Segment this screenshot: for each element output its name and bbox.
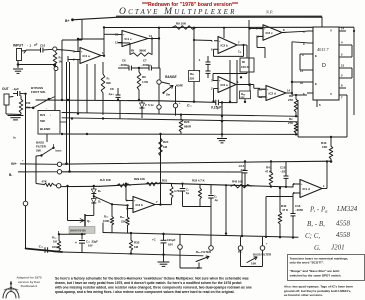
- svg-text:R24: R24: [163, 140, 169, 144]
- wire pot1 bottom: [179, 249, 181, 268]
- svg-text:R21: R21: [40, 113, 46, 117]
- svg-text:IC1 d: IC1 d: [303, 187, 311, 191]
- transistor Q1 source: [84, 226, 86, 235]
- op-amp IC2c: [263, 25, 282, 41]
- pin 13 right: [339, 67, 346, 69]
- svg-text:100μF: 100μF: [52, 245, 60, 249]
- svg-text:→: →: [45, 107, 48, 110]
- pin loop right a: [346, 44, 352, 46]
- transistor Q1 JFET: [84, 214, 86, 227]
- pin 7 VSS right: [339, 94, 346, 96]
- wire IC1c out: [151, 38, 159, 40]
- svg-text:-.0056: -.0056: [295, 208, 303, 212]
- svg-text:9V+: 9V+: [11, 162, 17, 166]
- node jack mid: [157, 105, 161, 109]
- svg-text:R₁ℎ 10K: R₁ℎ 10K: [100, 178, 111, 182]
- svg-text:SW.: SW.: [36, 149, 41, 153]
- wire right loop: [297, 100, 299, 137]
- svg-text:16V: 16V: [168, 243, 173, 247]
- wire node column: [54, 71, 56, 111]
- svg-text:drawn, but I have an early ped: drawn, but I have an early pedal from 19…: [55, 281, 242, 285]
- wire IC2a out: [237, 84, 254, 86]
- potentiometer R46 BASS FILTER term1: [240, 237, 242, 246]
- wire top rail: [104, 26, 313, 28]
- svg-text:R32 4.7 K: R32 4.7 K: [192, 179, 205, 183]
- pin 2 right: [339, 56, 346, 58]
- wire R1 to left: [18, 64, 55, 66]
- svg-text:E: E: [315, 82, 317, 86]
- svg-text:-: -: [267, 96, 268, 99]
- svg-text:C10: C10: [40, 44, 46, 48]
- svg-text:G.: G.: [314, 244, 321, 252]
- wire C20 to rail: [162, 233, 164, 235]
- resistor R1 1M: [53, 52, 57, 68]
- svg-text:-: -: [301, 192, 302, 195]
- svg-text:10K: 10K: [251, 262, 257, 266]
- svg-text:- .1: - .1: [27, 44, 32, 48]
- wire x249 vertical: [248, 20, 250, 86]
- svg-text:C7: C7: [143, 59, 147, 63]
- wire source bus: [59, 233, 86, 235]
- svg-text:+C: +C: [152, 238, 156, 242]
- wire IC1d feedback: [325, 188, 327, 190]
- svg-text:only the word "SCOTT".: only the word "SCOTT".: [290, 261, 325, 265]
- svg-text:50K: 50K: [40, 119, 46, 123]
- wire IC2b power stub: [223, 28, 225, 38]
- svg-text:IC3 b: IC3 b: [136, 203, 144, 207]
- wire rail y253: [62, 252, 203, 256]
- svg-text:-.1μF: -.1μF: [12, 87, 19, 91]
- svg-text:1.5K: 1.5K: [142, 80, 149, 84]
- jack J1 input: [17, 49, 22, 61]
- resistor R6 1.5K: [137, 72, 141, 90]
- wire bus y134: [62, 133, 298, 135]
- wire IC2c minus loop: [257, 35, 263, 37]
- wire diode junction: [93, 195, 95, 197]
- svg-text:9v: 9v: [13, 136, 16, 140]
- svg-text:1M: 1M: [163, 145, 168, 149]
- resistor Ra 220 box: [189, 71, 200, 82]
- wire bus x120: [119, 100, 121, 119]
- resistor R5 47K: [101, 74, 105, 93]
- wire C1 to node A: [44, 48, 53, 51]
- svg-text:IC2 c: IC2 c: [266, 31, 274, 35]
- svg-text:Z: Z: [145, 103, 147, 107]
- wire out column: [23, 201, 28, 206]
- wire filter join: [292, 184, 294, 187]
- wire Rt to IC2a: [246, 72, 248, 74]
- resistor R35 1M: [130, 232, 132, 234]
- wire bus x72: [69, 62, 71, 172]
- pin loop right b: [346, 67, 352, 69]
- capacitor C18 .33uF: [81, 234, 83, 239]
- svg-text:Dudziewicz: Dudziewicz: [21, 284, 38, 288]
- wire bus y100: [36, 100, 216, 102]
- transistor Q1 gate arrow: [68, 220, 85, 222]
- svg-text:bass: bass: [56, 149, 62, 153]
- wire bus x68: [66, 62, 68, 164]
- node dot below R1: [54, 67, 58, 71]
- svg-text:.1μ: .1μ: [214, 198, 218, 202]
- svg-text:R40 10K: R40 10K: [232, 180, 243, 184]
- wire rail y172: [62, 171, 242, 173]
- wire IC2b feedback loop: [239, 44, 241, 46]
- wire IC1a in stub: [70, 51, 76, 52]
- wire IC2c out down: [283, 31, 308, 32]
- pin 6 stub bottom: [316, 100, 318, 107]
- potentiometer R21 BLEND: [38, 111, 60, 135]
- wire caps bottom loop: [183, 206, 212, 208]
- op-amp IC2a: [218, 77, 236, 93]
- label box 2N5457: [69, 227, 95, 234]
- svg-text:R₄₅ FILTER: R₄₅ FILTER: [196, 250, 211, 254]
- wire R42 top: [279, 188, 281, 205]
- resistor R23 680K: [179, 119, 183, 132]
- op-amp IC2d: [266, 86, 286, 101]
- svg-text:16V: 16V: [88, 244, 93, 248]
- wire rail y186: [60, 185, 100, 187]
- svg-text:BLEND: BLEND: [40, 127, 51, 131]
- wire IC1a feedback: [78, 38, 104, 40]
- zener D3 5.1V: [141, 100, 143, 103]
- wire bus x95: [94, 64, 96, 100]
- svg-text:4558: 4558: [336, 231, 351, 239]
- svg-text:390K: 390K: [139, 49, 147, 53]
- svg-text:4.7K: 4.7K: [174, 189, 180, 193]
- svg-text:μF: μF: [34, 43, 38, 47]
- pin 10 Ebar left: [307, 81, 313, 83]
- wire bus y113: [62, 113, 298, 117]
- svg-text:220: 220: [190, 77, 195, 81]
- svg-text:FOOT SW.: FOOT SW.: [31, 90, 46, 94]
- svg-text:10K: 10K: [322, 145, 328, 149]
- svg-text:-: -: [81, 59, 82, 62]
- svg-text:Cᵨ: Cᵨ: [238, 50, 241, 54]
- svg-text:C₁₁ .33μF: C₁₁ .33μF: [86, 240, 98, 244]
- IC U4 4013 body: [313, 27, 339, 100]
- wire B+ rail: [73, 17, 323, 20]
- svg-text:as found in other versions.: as found in other versions.: [284, 293, 323, 297]
- pin 8 right: [339, 87, 346, 89]
- wire rail drop: [103, 28, 105, 56]
- pin 6 left: [307, 92, 313, 94]
- svg-text:R₃₆: R₃₆: [120, 215, 125, 219]
- wire node A to IC1a: [57, 50, 70, 51]
- wire pot2 bottom: [240, 250, 242, 266]
- pin 5 left: [307, 30, 313, 32]
- svg-text:39K: 39K: [106, 81, 111, 85]
- svg-text:V: V: [330, 29, 332, 33]
- svg-text:100 K: 100 K: [241, 65, 250, 69]
- wire rail y161: [62, 161, 330, 164]
- wire input to C1: [26, 49, 40, 51]
- svg-text:Ra: Ra: [190, 72, 194, 76]
- svg-text:-: -: [264, 35, 265, 38]
- pin 5b right: [339, 77, 346, 79]
- wire x159 column: [158, 28, 160, 68]
- logo theremin mark: [3, 288, 19, 298]
- svg-text:R9 10K: R9 10K: [176, 22, 187, 26]
- svg-text:B+: B+: [65, 19, 69, 23]
- ground under J2: [5, 105, 7, 114]
- svg-text:R29 10K: R29 10K: [134, 177, 145, 181]
- junction dots buses: [67, 99, 69, 101]
- svg-text:4558: 4558: [336, 219, 351, 227]
- svg-text:22K: 22K: [121, 220, 126, 224]
- svg-text:quad-opamp, and a few wiring f: quad-opamp, and a few wiring fixes. I al…: [55, 290, 235, 294]
- svg-text:B-: B-: [9, 173, 12, 177]
- svg-text:Rf: Rf: [131, 49, 134, 53]
- ground under C20: [163, 261, 165, 262]
- svg-text:IC1 c: IC1 c: [125, 37, 133, 41]
- svg-text:E: E: [315, 54, 317, 58]
- capacitor C23 .1: [210, 184, 212, 194]
- svg-text:R₃₃: R₃₃: [104, 215, 109, 219]
- wire W2 octave bus: [100, 183, 293, 187]
- svg-text:switched by the same DPDT swit: switched by the same DPDT switch.: [290, 273, 342, 277]
- boxed note transistor: [288, 255, 365, 281]
- svg-text:27K: 27K: [288, 98, 294, 102]
- svg-text:0.15μF: 0.15μF: [211, 106, 222, 110]
- pin 9 left: [307, 42, 313, 44]
- pin 4 right: [339, 44, 346, 46]
- wire x230 drop: [229, 60, 231, 102]
- svg-text:LM324: LM324: [336, 205, 358, 213]
- svg-text:5.1v: 5.1v: [148, 103, 154, 107]
- svg-text:680R: 680R: [184, 125, 192, 129]
- wire IC3b plus stub: [125, 183, 127, 185]
- switch bypass: [34, 99, 49, 107]
- svg-text:V: V: [330, 92, 332, 96]
- svg-text:-: -: [219, 88, 220, 91]
- svg-text:B, - B,: B, - B,: [307, 220, 325, 228]
- wire IC2d inputs: [258, 88, 266, 90]
- op-amp IC3b: [133, 197, 155, 213]
- svg-text:+50V: +50V: [53, 249, 60, 253]
- wire IC2a minus stub: [213, 88, 216, 90]
- svg-text:47 K: 47 K: [282, 208, 289, 212]
- svg-text:xxx: xxx: [241, 96, 246, 99]
- op-amp IC1a: [80, 48, 101, 64]
- node test point: [173, 103, 177, 107]
- resistor R30 24K: [19, 99, 23, 113]
- op-amp IC1d: [300, 180, 322, 198]
- svg-text:27K: 27K: [288, 121, 294, 125]
- wire bus x62: [61, 40, 63, 100]
- capacitor C22 1uF: [181, 183, 183, 185]
- svg-text:OUT: OUT: [2, 87, 9, 91]
- switch bass filter: [42, 148, 53, 155]
- wire IC3b out: [157, 204, 172, 206]
- svg-text:NOPE: NOPE: [176, 85, 183, 88]
- op-amp IC2b: [218, 37, 237, 54]
- svg-text:Rt: Rt: [242, 60, 245, 64]
- svg-text:-.0039μ: -.0039μ: [119, 63, 129, 67]
- wire IC2d out: [287, 92, 293, 94]
- svg-text:N.P.: N.P.: [265, 10, 273, 15]
- svg-text:47K: 47K: [42, 180, 48, 184]
- op-amp IC1c: [122, 31, 148, 47]
- svg-text:IC2 d: IC2 d: [269, 91, 277, 95]
- svg-text:1M: 1M: [134, 245, 139, 249]
- svg-text:C8: C8: [110, 87, 114, 91]
- diode D1: [93, 185, 95, 187]
- node range: [157, 80, 161, 84]
- wire R24 column: [160, 134, 162, 205]
- svg-text:R₃₄: R₃₄: [52, 236, 57, 240]
- wire rail stub left: [102, 223, 104, 233]
- svg-text:with one missing resistor adde: with one missing resistor added, one res…: [54, 286, 252, 290]
- svg-text:C6: C6: [122, 59, 126, 63]
- svg-text:14: 14: [341, 27, 345, 31]
- svg-text:10: 10: [300, 81, 304, 85]
- diode D2: [93, 194, 95, 199]
- pin 14 VDD right: [339, 30, 346, 32]
- title underline: [116, 15, 322, 17]
- svg-text:13: 13: [341, 64, 345, 68]
- pin loop left: [300, 53, 307, 55]
- svg-text:R6: R6: [142, 75, 146, 79]
- svg-text:INPUT: INPUT: [13, 44, 24, 48]
- svg-text:IC1 a: IC1 a: [83, 54, 91, 58]
- ground mid: [221, 103, 223, 138]
- wire IC2b out: [240, 44, 247, 46]
- svg-text:RANGE: RANGE: [165, 75, 177, 79]
- svg-text:So here's a factory schematic: So here's a factory schematic for the El…: [55, 276, 249, 280]
- wire filter bottoms: [241, 172, 243, 236]
- resistor R33 100K: [111, 203, 113, 205]
- wire IC1d lower loop: [266, 196, 293, 198]
- wire bass column: [35, 156, 37, 184]
- svg-text:14: 14: [149, 34, 153, 38]
- svg-text:C₁₀: C₁₀: [187, 104, 193, 108]
- resistor R34 1M: [58, 234, 60, 240]
- pin 3 E left: [307, 53, 313, 55]
- wire B+ drop left: [81, 19, 83, 40]
- svg-text:-C₁₉: -C₁₉: [38, 245, 44, 249]
- svg-text:IC2 a: IC2 a: [221, 83, 229, 87]
- wire bus x87: [86, 64, 88, 113]
- potentiometer R46 BASS FILTER term2: [262, 237, 264, 246]
- svg-text:1μ: 1μ: [186, 191, 189, 195]
- svg-text:100K: 100K: [103, 219, 109, 223]
- trimmer Rt 100K: [240, 58, 254, 72]
- pin 11 left: [307, 69, 313, 71]
- svg-text:D: D: [322, 63, 326, 69]
- potentiometer R45 FILTER term2: [210, 207, 212, 246]
- svg-text:2N5457/5458: 2N5457/5458: [70, 229, 86, 233]
- wire IC1c inputs: [104, 33, 118, 35]
- wire far right vertical: [321, 17, 323, 27]
- svg-text:IC2 b: IC2 b: [221, 43, 229, 47]
- ground under J1: [17, 61, 19, 68]
- svg-text:R35: R35: [134, 241, 140, 245]
- wire rail y234: [103, 233, 298, 238]
- svg-text:R31: R31: [162, 178, 168, 182]
- svg-text:14: 14: [287, 89, 291, 93]
- wire drop to pot: [225, 185, 227, 233]
- svg-text:R23: R23: [184, 120, 190, 124]
- wire IC3b minus stub: [128, 208, 130, 210]
- svg-text:100μF: 100μF: [167, 238, 176, 242]
- resistor R24 1M: [159, 138, 163, 156]
- wire 4013 right down: [353, 31, 355, 115]
- wire IC1d inputs: [293, 183, 300, 185]
- wire IC2c inputs: [250, 28, 264, 30]
- potentiometer R45 FILTER term1: [179, 234, 181, 244]
- svg-text:C; C,: C; C,: [305, 232, 320, 240]
- svg-text:J201: J201: [331, 243, 345, 251]
- svg-text:+: +: [75, 241, 77, 245]
- svg-text:-: -: [134, 208, 135, 211]
- node 47K mid: [57, 184, 61, 188]
- resistor Rb2 box: [240, 91, 251, 99]
- resistor R36 22K: [126, 204, 128, 206]
- capacitor C20 100uF: [162, 233, 164, 235]
- svg-text:-: -: [219, 48, 220, 51]
- svg-text:-1μ+: -1μ+: [108, 92, 114, 96]
- node A input: [53, 47, 57, 51]
- svg-text:P, - P₆: P, - P₆: [309, 206, 328, 214]
- svg-text:4013 7: 4013 7: [317, 47, 329, 52]
- wire bus y118: [62, 118, 298, 122]
- wire gate column: [67, 186, 69, 221]
